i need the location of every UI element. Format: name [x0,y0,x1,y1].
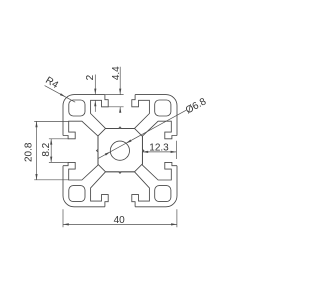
arrowhead 12.3 left [142,151,148,153]
arrowhead dia6.8 upper [126,140,132,144]
dim 8.2 extension lines [49,139,69,163]
arrowhead dim2 down [94,89,96,95]
arrowhead 20.8 bottom [35,174,37,180]
T-slot cavity right [142,121,177,180]
T-slot cavity left [63,121,98,180]
dim 40 line [63,223,177,225]
svg-text:8.2: 8.2 [41,142,52,156]
svg-text:4.4: 4.4 [111,66,122,80]
corner screw hole TL [69,100,85,116]
profile outer outline [63,95,177,207]
leader dia 6.8 [98,110,186,158]
arrowhead dim4.4 down [119,89,121,95]
arrowhead 12.3 right [171,151,177,153]
arrowhead dim4.4 up [119,107,121,113]
dim 40 extension lines [63,209,177,227]
dim 4.4 line and extensions [102,67,124,113]
arrowhead R4 [60,93,66,97]
arrowhead 8.2 bottom [50,157,52,163]
corner screw hole BL [69,186,85,202]
corner screw hole BR [155,186,171,202]
arrowhead 40 right [171,223,177,225]
svg-text:20.8: 20.8 [24,142,35,162]
central boss octagon [97,127,144,173]
dim 12.3 line [142,151,176,153]
arrowhead dia6.8 lower [105,152,111,156]
T-slot cavity bottom [91,172,150,207]
dim 20.8 extension lines [34,121,69,179]
arrowhead 8.2 top [50,139,52,145]
arrowhead dim2 up [94,101,96,107]
arrowhead 20.8 top [35,121,37,127]
svg-text:2: 2 [85,74,96,80]
center bore circle [110,141,129,160]
dim 8.2 line [50,139,52,163]
dim 12.3 extension lines [142,141,176,159]
leader R4 [45,86,76,103]
dim 2 line and extensions [94,75,96,112]
dim 20.8 line [36,121,38,179]
corner screw hole TR [155,100,171,116]
T-slot cavity top [91,95,150,129]
arrowhead 40 left [63,223,69,225]
svg-text:40: 40 [114,215,126,226]
svg-text:12.3: 12.3 [149,142,169,153]
